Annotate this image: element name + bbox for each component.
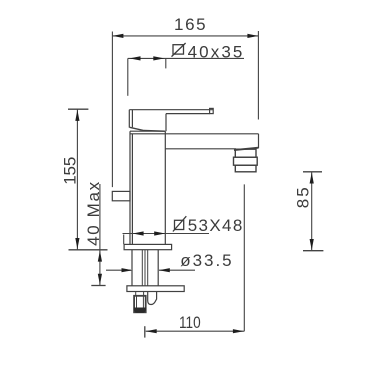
aerator middle ring [234,157,258,165]
label dia40x35 symbol [172,43,186,57]
dim 110 line [146,330,245,332]
handle left face [129,110,132,128]
svg-text:110: 110 [179,314,201,333]
dim 165 right extension [257,31,259,120]
leader 33.5 right [159,269,195,271]
arrow 165 right [247,34,258,38]
body cap top line [130,130,165,132]
base flange [124,244,172,249]
arrow 110 right [233,329,244,333]
side tab [112,191,130,200]
svg-text:53X48: 53X48 [188,216,243,235]
dim 40max bottom tick [91,285,105,287]
arrow 110 left [146,329,157,333]
body left edge [130,131,132,244]
dim 40x35 right stub [165,58,167,68]
arrow 53x48 right [154,231,165,235]
hose flap [148,292,157,305]
dim 85 line [311,172,313,251]
spout bottom edge [165,148,236,150]
aerator top ring [235,149,256,157]
svg-text:85: 85 [294,187,313,208]
arrow 40x35 left [130,56,141,60]
arrow 85 up [310,173,314,184]
body cap lower line [130,133,165,135]
dim 85 bottom tick [303,250,323,252]
arrow 165 left [112,34,123,38]
dim 155 top tick [68,108,88,110]
dim 40max line [99,184,101,285]
dim 85 top tick [303,171,322,173]
arrow 155 up [75,110,79,121]
arrow 33.5 left-pointing-right [122,268,133,272]
dim 40x35 left extension [127,58,129,95]
svg-text:165: 165 [174,15,206,34]
dim 40x35 line [128,57,244,59]
handle bottom slant [130,127,165,131]
dim 53x48 left stub [123,235,125,245]
arrow 40max up [98,251,102,262]
arrow 40max down [98,274,102,285]
spout top edge [165,133,258,135]
body right edge [164,131,166,244]
dim 53x48 line [123,233,210,235]
lever end cap [210,108,214,113]
arrow 53x48 left [133,231,144,235]
arrow 40x35 right [153,56,164,60]
svg-text:ø33.5: ø33.5 [180,251,231,270]
dim 165 left extension [111,32,113,188]
dim 165 line [112,35,258,37]
dim 155 line [76,109,78,250]
stud links [136,292,144,296]
arrow 85 down [310,239,314,250]
shared tick 155/40max [69,249,108,251]
lever step edge [165,114,167,132]
aerator bottom ring [235,165,256,172]
dim 110 right extension [243,184,245,331]
spout bottom slant [234,148,259,150]
spout right edge [258,134,260,148]
nut dark base [134,308,145,312]
handle top edge [129,109,213,111]
shank outer walls [132,250,158,286]
arrow 155 down [75,238,79,249]
shank inner pipes [142,250,147,286]
dim 110 left tick [144,326,146,337]
mounting washer [127,286,184,292]
arrow 33.5 right-pointing-left [159,268,170,272]
nut body [134,296,146,313]
nut inner lines [137,296,144,308]
label dia53x48 symbol [173,216,186,231]
svg-text:155: 155 [61,157,80,185]
svg-text:40x35: 40x35 [188,43,243,62]
leader 33.5 left [106,269,131,271]
lever arm bottom [166,113,210,115]
